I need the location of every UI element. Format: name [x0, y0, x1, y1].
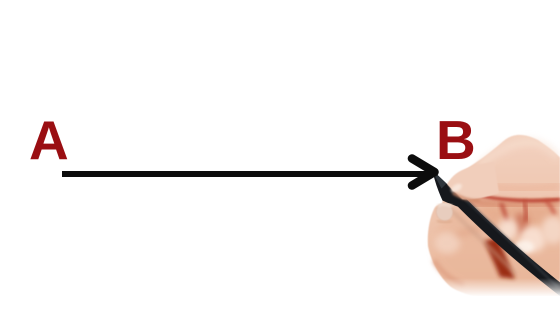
svg-text:A: A	[29, 109, 69, 171]
svg-text:B: B	[436, 109, 476, 171]
